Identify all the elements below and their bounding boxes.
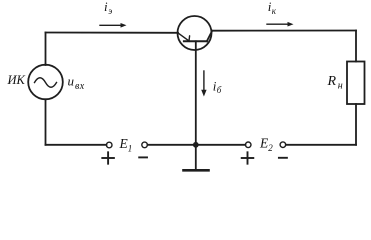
transistor collector lead — [207, 31, 212, 42]
svg-text:R: R — [327, 74, 337, 89]
wire: base lead vertical down to bottom node — [195, 41, 197, 145]
label: resistor Rн — [327, 74, 343, 91]
arrowhead: i_б — [201, 90, 206, 97]
label: u_вх — [68, 73, 85, 92]
transistor emitter lead (with arrow into base, PNP) — [178, 33, 190, 41]
AC source circle (ИК generator) — [28, 65, 63, 100]
svg-text:ИК: ИК — [7, 73, 26, 87]
svg-text:1: 1 — [128, 143, 133, 153]
label: current i_б — [213, 78, 222, 95]
svg-text:н: н — [338, 80, 343, 91]
svg-text:э: э — [108, 6, 112, 16]
transistor base bar — [184, 40, 207, 42]
wire: top-left horizontal (source to transistor emitter) — [46, 32, 179, 34]
ground lead vertical — [195, 145, 197, 170]
terminal E1 plus (open circle) — [106, 142, 112, 148]
minus sign of E2 — [279, 157, 287, 159]
arrow line: current i_э — [100, 24, 121, 26]
terminal E1 minus (open circle) — [142, 142, 148, 148]
transistor VT body circle — [178, 16, 212, 50]
AC source sine symbol — [35, 78, 57, 88]
wire: left vertical lower (AC source down to bottom wire) — [45, 99, 47, 145]
arrowhead: i_к — [288, 22, 294, 27]
wire: right vertical lower (resistor bottom to bottom wire) — [355, 104, 357, 145]
svg-text:б: б — [217, 85, 222, 95]
terminal E2 plus (open circle) — [245, 142, 251, 148]
label: battery E1 — [119, 136, 133, 153]
resistor Rн body — [347, 62, 365, 105]
arrow line: current i_к — [267, 23, 288, 25]
label: battery E2 — [259, 136, 273, 153]
junction dot: base node on bottom wire — [193, 142, 199, 148]
arrowhead: i_э — [121, 23, 127, 28]
terminal E2 minus (open circle) — [280, 142, 286, 148]
wire: right vertical upper (top wire to resistor top) — [355, 31, 357, 62]
svg-text:2: 2 — [268, 143, 273, 153]
minus sign of E1 — [139, 156, 147, 158]
label: current i_к — [268, 0, 277, 16]
wire: left vertical upper (top wire down to AC source) — [45, 33, 47, 66]
wire: bottom-left horizontal (to E1 + terminal) — [46, 144, 107, 146]
wire: top-right horizontal (transistor collector to load) — [212, 30, 356, 32]
svg-text:вх: вх — [75, 81, 85, 92]
arrow line: current i_б (downward) — [203, 71, 205, 91]
wire: bottom-right horizontal (E2 to load branch) — [286, 144, 356, 146]
wire: bottom middle horizontal (E1 to E2 through base node) — [148, 144, 246, 146]
plus sign of E2 — [242, 152, 254, 163]
ground bar — [184, 169, 209, 172]
svg-text:u: u — [68, 73, 75, 88]
plus sign of E1 — [102, 152, 114, 163]
label: current i_э — [104, 0, 112, 16]
